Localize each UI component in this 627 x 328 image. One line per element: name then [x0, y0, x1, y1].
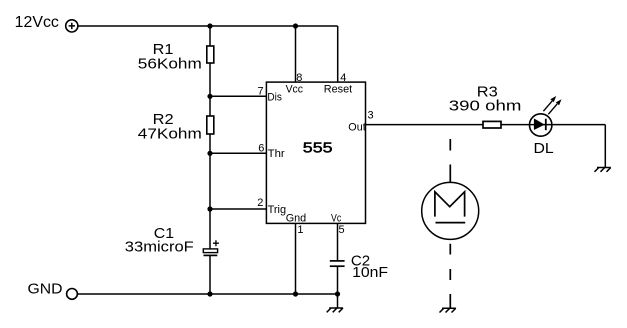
capacitor C2	[330, 261, 345, 266]
svg-text:33microF: 33microF	[125, 238, 194, 255]
wire C2 ground stub	[337, 294, 339, 308]
terminal GND	[67, 289, 78, 300]
svg-text:Dis: Dis	[267, 92, 282, 104]
svg-text:Vc: Vc	[331, 213, 342, 225]
svg-text:3: 3	[368, 110, 374, 122]
svg-text:2: 2	[257, 197, 263, 209]
svg-text:7: 7	[258, 86, 264, 98]
svg-text:Gnd: Gnd	[286, 213, 307, 225]
capacitor C1	[203, 240, 219, 255]
wire R2 down column	[209, 134, 211, 249]
svg-text:12Vcc: 12Vcc	[15, 14, 59, 31]
wire C2 to bottom rail	[337, 267, 339, 294]
svg-text:DL: DL	[534, 140, 554, 157]
svg-text:390 ohm: 390 ohm	[449, 97, 522, 114]
wire pin2 Trig	[210, 208, 266, 210]
svg-text:10nF: 10nF	[352, 264, 388, 281]
led DL cathode bar	[545, 119, 547, 131]
led DL circle	[530, 114, 552, 136]
wire C1 to bottom rail	[209, 255, 211, 294]
node Dis junction	[207, 94, 212, 99]
wire R1 to R2	[209, 63, 211, 116]
terminal 12Vcc plus	[66, 20, 78, 32]
led DL diode triangle	[534, 118, 545, 130]
led DL arrow 1	[543, 96, 556, 111]
svg-text:Trig: Trig	[268, 204, 287, 216]
resistor R1	[207, 46, 214, 63]
ground below motor	[440, 308, 456, 312]
svg-text:Reset: Reset	[324, 84, 352, 96]
svg-text:56Kohm: 56Kohm	[138, 55, 202, 72]
node Trig junction	[207, 206, 212, 211]
wire pin5 to C2	[337, 223, 339, 260]
wire pin7 Dis	[210, 95, 266, 97]
resistor R2	[207, 116, 214, 134]
svg-text:GND: GND	[28, 281, 63, 298]
ground right	[595, 168, 611, 172]
wire top rail	[78, 25, 338, 27]
motor M glyph	[435, 192, 465, 217]
wire pin3 Out to R3	[366, 124, 484, 126]
motor M1 circle	[422, 182, 479, 239]
wire pin4 drop	[337, 26, 339, 83]
wire pin1 to bottom rail	[295, 223, 297, 294]
svg-text:5: 5	[339, 224, 345, 236]
node bottom rail C2 junction	[335, 291, 340, 296]
node bottom rail pin1 junction	[293, 291, 298, 296]
svg-text:1: 1	[297, 224, 303, 236]
node Thr junction	[207, 151, 212, 156]
wire R1 column top	[209, 26, 211, 46]
node top rail pin8 junction	[293, 23, 298, 28]
wire right drop to ground	[604, 125, 606, 168]
node top rail R1 junction	[207, 23, 212, 28]
motor underline	[436, 222, 466, 224]
svg-text:47Kohm: 47Kohm	[138, 125, 202, 142]
svg-text:Out: Out	[348, 122, 365, 134]
svg-text:8: 8	[296, 72, 302, 84]
ground below C2	[327, 308, 343, 312]
led DL arrow 2	[548, 99, 561, 114]
svg-text:4: 4	[340, 72, 346, 84]
svg-text:555: 555	[303, 140, 333, 157]
wire dashed motor bottom	[449, 244, 451, 308]
node bottom rail C1 junction	[207, 291, 212, 296]
svg-text:Thr: Thr	[268, 148, 285, 160]
resistor R3	[483, 121, 501, 128]
wire R3 to LED to right corner	[501, 124, 605, 126]
wire pin6 Thr	[210, 152, 266, 154]
IC U1 555 timer body	[266, 82, 365, 223]
wire bottom rail	[77, 293, 337, 295]
svg-text:6: 6	[258, 142, 264, 154]
wire dashed motor top	[449, 139, 451, 183]
svg-text:Vcc: Vcc	[286, 84, 304, 96]
wire pin8 drop	[295, 26, 297, 83]
